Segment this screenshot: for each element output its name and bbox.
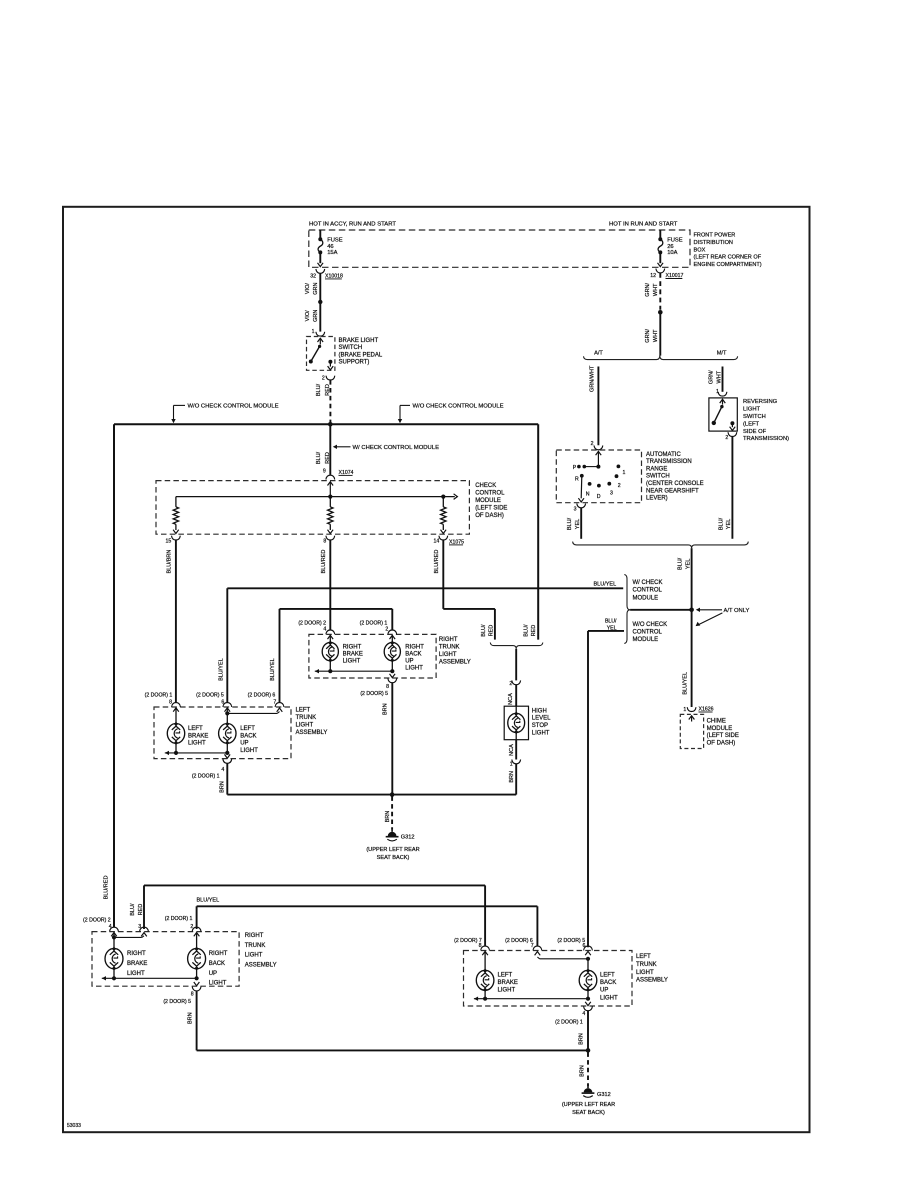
svg-text:W/ CHECK CONTROL MODULE: W/ CHECK CONTROL MODULE [353, 445, 440, 451]
wire BLU/YEL to chime module [682, 610, 691, 707]
connector X1075 pins 15 8 14 [166, 536, 465, 546]
svg-text:BACK: BACK [209, 961, 225, 967]
svg-text:(LEFT SIDE: (LEFT SIDE [475, 505, 507, 511]
svg-text:RIGHT: RIGHT [209, 951, 228, 957]
svg-text:FUSE: FUSE [667, 238, 683, 244]
label W/O CHECK CONTROL MODULE left leader [171, 403, 278, 423]
jumper pin 6 to pin 7 left trunk 2dr [535, 952, 591, 961]
svg-text:CONTROL: CONTROL [633, 588, 663, 594]
svg-text:ASSEMBLY: ASSEMBLY [245, 963, 277, 969]
svg-text:NEAR GEARSHIFT: NEAR GEARSHIFT [646, 488, 699, 494]
labels BLU/YEL risers [218, 658, 276, 681]
svg-text:LEFT: LEFT [600, 973, 615, 979]
connector X1626 pin 1 [683, 706, 713, 713]
svg-text:LIGHT: LIGHT [343, 659, 361, 665]
connector pin 8 right trunk [360, 678, 396, 697]
svg-text:8: 8 [323, 539, 326, 545]
svg-text:BRN: BRN [509, 771, 515, 783]
svg-text:1: 1 [683, 707, 686, 713]
svg-text:8: 8 [191, 991, 194, 997]
wire BRN right trunk to ground bus [383, 683, 393, 795]
svg-text:BLU/RED: BLU/RED [434, 550, 440, 574]
svg-text:LEFT: LEFT [296, 707, 311, 713]
ground G312 upper [366, 796, 419, 861]
svg-text:(LEFT REAR CORNER OF: (LEFT REAR CORNER OF [694, 255, 762, 261]
connector pin 1 high level stop light [509, 740, 521, 768]
A/T M/T split bracket [584, 351, 738, 360]
bulb right brake light 2dr [105, 933, 147, 979]
svg-text:LEVEL: LEVEL [532, 716, 551, 722]
svg-text:LIGHT: LIGHT [532, 730, 550, 736]
svg-text:LEVER): LEVER) [646, 496, 668, 502]
svg-text:G312: G312 [597, 1092, 611, 1098]
wire BLU/YEL from reversing switch [719, 437, 733, 539]
svg-text:ASSEMBLY: ASSEMBLY [296, 730, 328, 736]
svg-text:AUTOMATIC: AUTOMATIC [646, 452, 681, 458]
wire BLU/RED main bus [114, 422, 538, 927]
svg-text:X1074: X1074 [339, 470, 354, 476]
svg-text:SUPPORT): SUPPORT) [339, 360, 370, 366]
svg-text:2: 2 [618, 483, 621, 489]
svg-text:2: 2 [725, 435, 728, 441]
svg-text:A/T ONLY: A/T ONLY [724, 608, 750, 614]
bulb right brake light [322, 635, 363, 671]
svg-text:VIO/: VIO/ [305, 283, 311, 294]
svg-text:3: 3 [610, 490, 613, 496]
svg-text:BLU/: BLU/ [316, 383, 322, 396]
svg-text:BRN: BRN [383, 703, 389, 715]
svg-text:BLU/YEL: BLU/YEL [594, 581, 617, 587]
svg-text:BLU/RED: BLU/RED [321, 550, 327, 574]
svg-text:4: 4 [582, 1011, 585, 1017]
jumper pin 6 to pin 7 left trunk [225, 708, 282, 716]
fuse 46 15A [318, 230, 343, 267]
connector pin 1 brake light switch [312, 329, 325, 336]
svg-text:UP: UP [405, 659, 413, 665]
svg-text:2: 2 [385, 627, 388, 633]
svg-text:X10017: X10017 [666, 273, 684, 279]
svg-text:R: R [575, 477, 579, 483]
svg-text:G312: G312 [401, 835, 415, 841]
svg-text:BLU/: BLU/ [605, 618, 617, 624]
svg-text:1: 1 [510, 761, 513, 767]
svg-text:LIGHT: LIGHT [439, 652, 457, 658]
svg-text:GRN: GRN [313, 310, 319, 322]
label W/O CHECK CONTROL MODULE right leader [398, 403, 504, 423]
svg-text:RANGE: RANGE [646, 466, 667, 472]
svg-text:(2 DOOR) 5: (2 DOOR) 5 [360, 691, 388, 697]
svg-text:OF DASH): OF DASH) [475, 513, 504, 519]
wire BRN left trunk 2dr to junction [579, 1011, 591, 1053]
svg-text:W/ CHECK: W/ CHECK [633, 580, 663, 586]
svg-text:LEFT: LEFT [636, 954, 651, 960]
svg-text:YEL: YEL [575, 519, 581, 529]
svg-text:YEL: YEL [685, 559, 691, 569]
svg-text:10A: 10A [667, 250, 677, 256]
svg-text:LEFT: LEFT [188, 726, 203, 732]
label HOT IN RUN AND START [609, 222, 678, 228]
svg-text:SWITCH: SWITCH [646, 474, 670, 480]
svg-text:ASSEMBLY: ASSEMBLY [636, 978, 668, 984]
svg-text:BLU/: BLU/ [678, 557, 684, 570]
wire BLU/RED junction to check module [316, 424, 331, 475]
label W/ CHECK CONTROL MODULE [333, 445, 439, 451]
svg-text:9: 9 [323, 469, 326, 475]
left trunk light assembly [154, 707, 327, 759]
wire GRN/WHT fuse 26 to split [645, 273, 662, 356]
svg-text:SWITCH: SWITCH [743, 414, 766, 420]
jumper bulbs to pin 4 left trunk [165, 751, 230, 759]
bulb right back up light 2dr [188, 933, 228, 987]
svg-text:(LEFT SIDE: (LEFT SIDE [707, 733, 739, 739]
svg-text:GRN/: GRN/ [709, 370, 715, 384]
svg-text:RED: RED [531, 625, 537, 637]
svg-text:BRAKE LIGHT: BRAKE LIGHT [339, 338, 379, 344]
svg-text:DISTRIBUTION: DISTRIBUTION [694, 240, 733, 246]
svg-text:(2 DOOR) 1: (2 DOOR) 1 [145, 693, 173, 699]
svg-text:W/O CHECK CONTROL MODULE: W/O CHECK CONTROL MODULE [413, 403, 504, 409]
svg-text:BRN: BRN [579, 1033, 585, 1045]
svg-text:RED: RED [325, 384, 331, 396]
connector pin 7 left trunk [248, 693, 284, 707]
connector X1074 pin 9 [323, 469, 354, 480]
svg-text:SWITCH: SWITCH [339, 345, 363, 351]
svg-text:LIGHT: LIGHT [498, 988, 516, 994]
wire BLU/YEL w/o check control line [588, 618, 624, 947]
svg-text:GRN/: GRN/ [645, 328, 651, 342]
wire BLU/YEL w/ check control line [227, 581, 623, 702]
svg-text:RIGHT: RIGHT [343, 645, 362, 651]
svg-text:UP: UP [600, 988, 608, 994]
jumper pin 4 to pin 3 right trunk 2dr [112, 933, 147, 940]
svg-text:LIGHT: LIGHT [405, 666, 423, 672]
wire BLU/RED switch to junction (dashed) [316, 380, 331, 423]
svg-text:BLU/: BLU/ [524, 624, 530, 637]
svg-text:26: 26 [667, 244, 673, 250]
svg-text:BLU/: BLU/ [316, 451, 322, 464]
svg-text:CHECK: CHECK [475, 483, 496, 489]
svg-text:(2 DOOR) 6: (2 DOOR) 6 [505, 938, 533, 944]
svg-text:BACK: BACK [405, 652, 421, 658]
svg-text:BLU/YEL: BLU/YEL [682, 672, 688, 695]
connector pin 2 right trunk [360, 621, 397, 639]
connector X10018 pin 32 [310, 269, 343, 279]
svg-text:BLU/: BLU/ [567, 517, 573, 530]
svg-text:ASSEMBLY: ASSEMBLY [439, 660, 471, 666]
svg-text:WHT: WHT [716, 370, 722, 383]
svg-text:1: 1 [312, 329, 315, 335]
svg-text:X1626: X1626 [699, 706, 714, 712]
wire merged to junction [630, 609, 692, 611]
wire GRN/WHT A/T branch [589, 365, 598, 445]
svg-text:BRAKE: BRAKE [343, 652, 363, 658]
svg-text:BRAKE: BRAKE [498, 980, 518, 986]
wire BRN high level to ground bus [509, 764, 516, 795]
svg-text:BLU/: BLU/ [130, 903, 136, 916]
front power distribution box [309, 230, 762, 268]
wire BLU/YEL backup riser to right trunk pin 2 [280, 609, 393, 703]
wire GRN/WHT M/T branch [709, 367, 723, 392]
connector pin 2 reversing light switch [725, 432, 736, 441]
svg-text:BLU/: BLU/ [481, 624, 487, 637]
svg-text:YEL: YEL [607, 626, 617, 632]
svg-text:UP: UP [240, 741, 248, 747]
svg-text:LEFT: LEFT [240, 726, 255, 732]
svg-text:BLU/YEL: BLU/YEL [270, 658, 276, 681]
jumper bulbs to pin 8 right trunk 2dr [102, 976, 200, 986]
svg-text:LIGHT: LIGHT [240, 748, 258, 754]
svg-text:BLU/BRN: BLU/BRN [167, 550, 173, 574]
svg-text:M/T: M/T [717, 351, 727, 357]
wire VIO/GRN fuse 46 to brake light switch [305, 273, 322, 331]
svg-text:NCA: NCA [508, 693, 514, 705]
connector pin 8 left trunk 2dr [454, 938, 489, 955]
svg-text:BLU/: BLU/ [719, 517, 725, 530]
svg-text:W/O CHECK CONTROL MODULE: W/O CHECK CONTROL MODULE [188, 403, 279, 409]
A/T M/T merge bracket [573, 542, 749, 549]
svg-text:D: D [597, 494, 601, 500]
svg-text:X10018: X10018 [325, 273, 343, 279]
svg-text:ENGINE COMPARTMENT): ENGINE COMPARTMENT) [694, 262, 762, 268]
bulb right back up light [384, 635, 424, 671]
svg-text:BRN: BRN [580, 1065, 586, 1077]
svg-text:HIGH: HIGH [532, 708, 547, 714]
left trunk light assembly 2-door [464, 951, 668, 1007]
svg-text:TRUNK: TRUNK [296, 715, 317, 721]
svg-text:12: 12 [650, 273, 656, 279]
svg-text:BRN: BRN [220, 781, 226, 793]
wire BLU/RED feedthrough (bottom-left pin 3 to bottom-right pin 8) [130, 885, 485, 946]
svg-text:1: 1 [623, 470, 626, 476]
connector pin 7 left trunk 2dr [505, 938, 542, 951]
svg-text:GRN/: GRN/ [645, 282, 651, 296]
automatic transmission range switch [556, 450, 703, 503]
svg-text:GRN/WHT: GRN/WHT [589, 365, 595, 392]
svg-text:LIGHT: LIGHT [743, 407, 761, 413]
bulb left back up light 2dr [579, 959, 618, 1002]
svg-text:MODULE: MODULE [633, 595, 659, 601]
connector pin 4 right trunk [298, 621, 334, 639]
svg-text:TRUNK: TRUNK [245, 943, 266, 949]
svg-text:W/O CHECK: W/O CHECK [633, 622, 668, 628]
svg-text:LIGHT: LIGHT [600, 995, 618, 1001]
wire BLU/BRN pin 15 to left trunk [167, 540, 176, 703]
svg-text:REVERSING: REVERSING [743, 399, 778, 405]
svg-text:4: 4 [323, 627, 326, 633]
connector pin 2 transmission range switch [591, 441, 603, 450]
svg-text:4: 4 [221, 767, 224, 773]
svg-text:BRN: BRN [385, 811, 391, 823]
svg-text:TRUNK: TRUNK [636, 962, 657, 968]
svg-text:SEAT BACK): SEAT BACK) [572, 1110, 605, 1116]
svg-text:(UPPER LEFT REAR: (UPPER LEFT REAR [562, 1102, 615, 1108]
svg-text:UP: UP [209, 971, 217, 977]
svg-text:(2 DOOR) 2: (2 DOOR) 2 [298, 621, 326, 627]
svg-text:LIGHT: LIGHT [127, 971, 145, 977]
svg-text:8: 8 [386, 684, 389, 690]
check control module [156, 481, 507, 535]
svg-text:46: 46 [327, 244, 333, 250]
svg-text:LIGHT: LIGHT [636, 970, 654, 976]
svg-text:BLU/YEL: BLU/YEL [197, 898, 220, 904]
chime module [680, 714, 739, 748]
svg-text:CHIME: CHIME [707, 719, 726, 725]
svg-text:GRN: GRN [313, 282, 319, 294]
svg-text:(2 DOOR) 1: (2 DOOR) 1 [165, 916, 193, 922]
wire BRN right trunk 2dr to ground [187, 991, 588, 1050]
svg-text:RED: RED [325, 452, 331, 464]
svg-text:15A: 15A [327, 250, 337, 256]
svg-text:32: 32 [310, 273, 316, 279]
svg-text:TRANSMISSION: TRANSMISSION [646, 459, 692, 465]
svg-text:LEFT: LEFT [498, 973, 513, 979]
ground G312 lower [562, 1052, 615, 1115]
svg-text:2: 2 [591, 441, 594, 447]
bulb left back up light [219, 708, 259, 754]
svg-text:RIGHT: RIGHT [439, 637, 458, 643]
svg-text:LIGHT: LIGHT [188, 741, 206, 747]
svg-text:(2 DOOR) 5: (2 DOOR) 5 [557, 938, 585, 944]
resistor check module pin 8 [328, 497, 334, 534]
jumper bulbs to pin 8 right trunk [315, 669, 395, 678]
svg-text:FRONT POWER: FRONT POWER [694, 233, 736, 239]
connector pin 8 left trunk [145, 693, 181, 712]
svg-text:RIGHT: RIGHT [127, 951, 146, 957]
svg-text:(2 DOOR) 1: (2 DOOR) 1 [360, 621, 388, 627]
connector pin 4 left trunk [192, 759, 232, 779]
svg-text:RED: RED [489, 625, 495, 637]
svg-text:(2 DOOR) 5: (2 DOOR) 5 [196, 693, 224, 699]
connector X10017 pin 12 [650, 269, 683, 279]
svg-text:(UPPER LEFT REAR: (UPPER LEFT REAR [366, 847, 419, 853]
brace to high level stop light [490, 643, 543, 649]
svg-text:WHT: WHT [653, 329, 659, 342]
wire BRN left trunk to ground bus [220, 763, 228, 794]
resistor check module pin 14 [441, 497, 447, 534]
svg-text:A/T: A/T [594, 351, 603, 357]
svg-text:LIGHT: LIGHT [296, 722, 314, 728]
junction A/T ONLY [689, 608, 749, 627]
svg-text:BRN: BRN [187, 1012, 193, 1024]
wire BLU/YEL from range switch [567, 508, 581, 539]
svg-text:LIGHT: LIGHT [245, 953, 263, 959]
connector pin 4 left trunk 2dr [555, 1006, 592, 1025]
high level stop light [504, 706, 551, 740]
wire BLU/RED pin 8 to right trunk [321, 540, 330, 630]
svg-text:VIO/: VIO/ [305, 310, 311, 321]
svg-text:BOX: BOX [694, 247, 706, 253]
svg-text:TRUNK: TRUNK [439, 645, 460, 651]
svg-text:MODULE: MODULE [707, 726, 733, 732]
svg-text:2: 2 [322, 375, 325, 381]
svg-text:HOT IN ACCY, RUN AND START: HOT IN ACCY, RUN AND START [309, 222, 396, 228]
svg-text:(2 DOOR) 1: (2 DOOR) 1 [192, 773, 220, 779]
svg-text:CONTROL: CONTROL [475, 490, 505, 496]
brake light switch [307, 337, 383, 371]
svg-text:(BRAKE PEDAL: (BRAKE PEDAL [339, 352, 383, 358]
svg-text:WHT: WHT [653, 283, 659, 296]
resistor check module pin 15 [173, 497, 179, 534]
reversing light switch [709, 398, 789, 442]
jumper bulbs to pin 4 left trunk 2dr [474, 997, 591, 1006]
right trunk light assembly 2-door [92, 932, 277, 987]
connector pin 2 brake light switch [322, 375, 335, 381]
svg-text:15: 15 [166, 539, 172, 545]
svg-text:P: P [573, 465, 577, 471]
right trunk light assembly [309, 634, 471, 678]
svg-text:N: N [586, 492, 590, 498]
svg-text:HOT IN RUN AND START: HOT IN RUN AND START [609, 222, 678, 228]
svg-text:(2 DOOR) 1: (2 DOOR) 1 [555, 1019, 583, 1025]
wire BLU/YEL feedthrough (bottom-right pin 7 to bottom-left pin 2) [197, 898, 538, 946]
wire NCA to high level stop light [508, 649, 521, 706]
connector pin 8 right trunk 2dr [163, 987, 201, 1005]
svg-text:STOP: STOP [532, 723, 548, 729]
connector pin 6 left trunk 2dr [557, 938, 592, 955]
svg-text:FUSE: FUSE [327, 238, 343, 244]
fuse 26 10A [658, 230, 683, 267]
svg-text:(CENTER CONSOLE: (CENTER CONSOLE [646, 481, 704, 487]
svg-text:MODULE: MODULE [475, 498, 501, 504]
svg-text:BLU/YEL: BLU/YEL [218, 658, 224, 681]
connector pin 4 right trunk 2dr [83, 917, 118, 936]
svg-text:LIGHT: LIGHT [209, 981, 227, 987]
svg-text:(LEFT: (LEFT [743, 421, 760, 427]
connector pin 6 left trunk [196, 693, 232, 712]
svg-text:SEAT BACK): SEAT BACK) [377, 855, 410, 861]
svg-text:(2 DOOR) 2: (2 DOOR) 2 [83, 917, 111, 923]
svg-text:SIDE OF: SIDE OF [743, 429, 767, 435]
svg-text:CONTROL: CONTROL [633, 630, 663, 636]
svg-text:RIGHT: RIGHT [245, 933, 264, 939]
svg-text:X1075: X1075 [449, 539, 464, 545]
svg-text:(2 DOOR) 6: (2 DOOR) 6 [248, 693, 276, 699]
svg-text:53033: 53033 [67, 1123, 81, 1129]
svg-text:14: 14 [434, 539, 440, 545]
svg-text:OF DASH): OF DASH) [707, 740, 736, 746]
bulb left brake light [167, 708, 208, 753]
brace check/no-check merge [624, 575, 667, 644]
connector pin 2 right trunk 2dr [165, 916, 201, 936]
connector pin 3 transmission range switch [574, 504, 586, 513]
svg-text:MODULE: MODULE [633, 637, 659, 643]
svg-text:NCA: NCA [509, 744, 515, 756]
label BLU/RED on main bus drop [103, 876, 109, 900]
bulb left brake light 2dr [476, 951, 518, 998]
svg-text:(2 DOOR) 5: (2 DOOR) 5 [163, 999, 191, 1005]
svg-text:BRAKE: BRAKE [188, 733, 208, 739]
svg-text:3: 3 [574, 506, 577, 512]
svg-text:BACK: BACK [240, 733, 256, 739]
svg-text:BLU/RED: BLU/RED [103, 876, 109, 900]
svg-text:YEL: YEL [726, 519, 732, 529]
svg-text:RED: RED [138, 904, 144, 916]
svg-text:TRANSMISSION): TRANSMISSION) [743, 436, 789, 442]
connector pin 3 right trunk 2dr [138, 924, 148, 931]
svg-text:RIGHT: RIGHT [405, 645, 424, 651]
connector pin 1 reversing light switch [716, 389, 727, 396]
label HOT IN ACCY, RUN AND START [309, 222, 396, 228]
svg-text:BACK: BACK [600, 980, 616, 986]
wire BLU/RED pin 14 to stop light brace [434, 540, 537, 640]
wire BRN ground bus [227, 792, 516, 797]
svg-text:BRAKE: BRAKE [127, 961, 147, 967]
wire BLU/YEL merged to A/T ONLY junction [678, 548, 692, 610]
